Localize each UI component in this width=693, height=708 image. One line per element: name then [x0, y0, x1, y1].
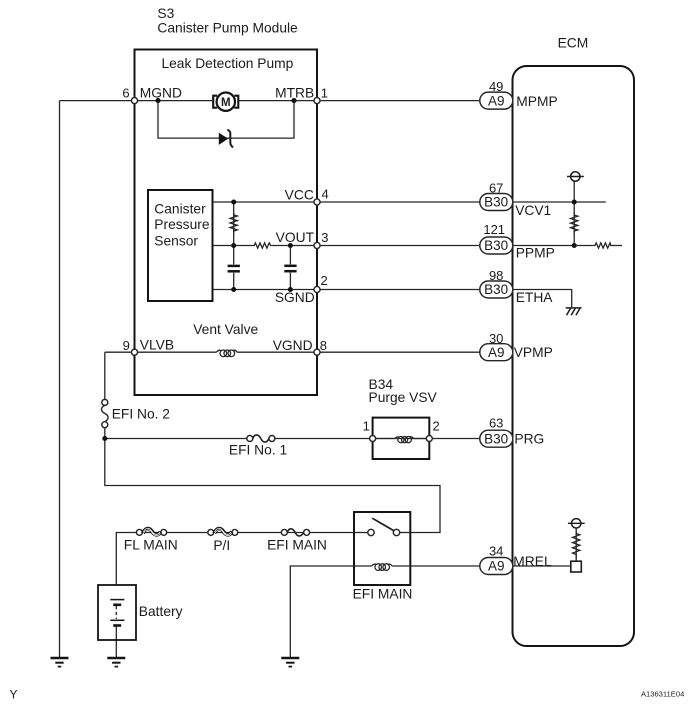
- svg-text:Canister: Canister: [154, 201, 206, 216]
- svg-text:Canister Pump Module: Canister Pump Module: [157, 21, 298, 36]
- svg-text:Purge VSV: Purge VSV: [369, 390, 438, 405]
- svg-text:A9: A9: [488, 559, 505, 574]
- svg-text:Leak Detection Pump: Leak Detection Pump: [161, 56, 293, 71]
- svg-text:A9: A9: [488, 93, 505, 108]
- svg-text:EFI No. 2: EFI No. 2: [112, 406, 170, 421]
- svg-text:67: 67: [489, 180, 503, 195]
- svg-text:B30: B30: [484, 431, 508, 446]
- svg-text:8: 8: [320, 338, 327, 353]
- svg-text:2: 2: [321, 273, 328, 288]
- svg-text:VCC: VCC: [285, 187, 314, 202]
- svg-text:EFI MAIN: EFI MAIN: [267, 538, 327, 553]
- svg-text:ETHA: ETHA: [516, 290, 554, 305]
- svg-text:MGND: MGND: [140, 86, 182, 101]
- svg-text:Battery: Battery: [139, 604, 183, 619]
- svg-text:B30: B30: [484, 195, 508, 210]
- svg-text:1: 1: [363, 418, 370, 433]
- svg-text:PRG: PRG: [514, 432, 544, 447]
- svg-text:A136311E04: A136311E04: [641, 689, 684, 698]
- svg-text:3: 3: [321, 230, 328, 245]
- svg-text:Vent Valve: Vent Valve: [193, 322, 258, 337]
- svg-text:MPMP: MPMP: [516, 94, 557, 109]
- svg-text:VGND: VGND: [273, 338, 313, 353]
- svg-text:VCV1: VCV1: [515, 203, 551, 218]
- svg-text:PPMP: PPMP: [516, 246, 555, 261]
- svg-text:1: 1: [321, 85, 328, 100]
- svg-text:9: 9: [123, 338, 130, 353]
- svg-text:Sensor: Sensor: [154, 233, 198, 248]
- svg-text:EFI MAIN: EFI MAIN: [353, 586, 413, 601]
- svg-text:A9: A9: [488, 345, 505, 360]
- svg-text:4: 4: [322, 187, 329, 202]
- svg-text:FL MAIN: FL MAIN: [124, 538, 178, 553]
- svg-text:B30: B30: [484, 282, 508, 297]
- svg-text:6: 6: [122, 85, 129, 100]
- svg-text:VPMP: VPMP: [514, 345, 553, 360]
- svg-text:Y: Y: [10, 687, 18, 701]
- svg-text:63: 63: [489, 416, 503, 431]
- svg-text:VLVB: VLVB: [140, 338, 174, 353]
- svg-text:98: 98: [489, 268, 503, 283]
- svg-text:ECM: ECM: [558, 35, 589, 50]
- svg-text:MTRB: MTRB: [275, 86, 314, 101]
- svg-text:121: 121: [483, 222, 505, 237]
- svg-text:SGND: SGND: [275, 290, 315, 305]
- svg-text:Pressure: Pressure: [154, 217, 210, 232]
- svg-text:34: 34: [489, 544, 503, 559]
- svg-text:49: 49: [489, 79, 503, 94]
- svg-text:2: 2: [433, 418, 440, 433]
- svg-text:EFI No. 1: EFI No. 1: [229, 443, 287, 458]
- svg-text:B30: B30: [484, 238, 508, 253]
- svg-text:M: M: [221, 97, 231, 109]
- svg-text:P/I: P/I: [213, 538, 230, 553]
- svg-text:VOUT: VOUT: [276, 230, 315, 245]
- svg-text:30: 30: [489, 331, 503, 346]
- svg-text:S3: S3: [157, 6, 174, 21]
- svg-text:MREL: MREL: [513, 554, 552, 569]
